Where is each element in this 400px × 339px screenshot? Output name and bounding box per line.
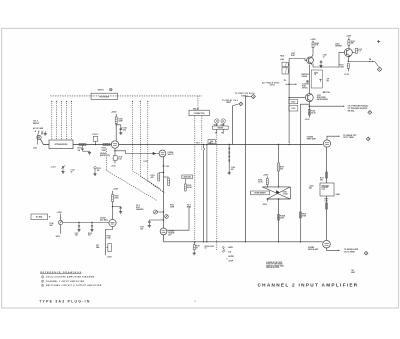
svg-text:TRIGGER: TRIGGER	[322, 185, 330, 187]
svg-text:1.8: 1.8	[358, 51, 360, 53]
emitter enclosure box	[311, 70, 322, 88]
svg-text:ATTENUATORS: ATTENUATORS	[55, 143, 69, 146]
diamond trigger	[368, 111, 372, 115]
svg-text:R149: R149	[280, 54, 284, 57]
neon box label	[213, 126, 229, 129]
svg-text:8-50: 8-50	[123, 130, 126, 132]
svg-text:2 100K: 2 100K	[283, 194, 289, 196]
wire cathode to second CF grid	[114, 150, 115, 151]
svg-text:2: 2	[366, 253, 367, 255]
svg-text:VERT AMP: VERT AMP	[307, 139, 317, 141]
gain adj box	[182, 175, 193, 179]
ganged switch dashed verticals into attenuator	[51, 103, 53, 140]
test point TP148	[323, 91, 325, 93]
svg-text:GANGED: GANGED	[136, 208, 144, 211]
svg-text:R156: R156	[311, 110, 315, 112]
diamond diode gate	[364, 251, 368, 255]
wire bottom rail	[164, 241, 323, 243]
capacitor C121	[163, 219, 164, 220]
wire to Q163 base	[289, 59, 307, 61]
svg-text:POSIT OF VERT MODE: POSIT OF VERT MODE	[266, 264, 282, 266]
svg-text:C119: C119	[166, 166, 170, 168]
trimmer INT DC BAL	[108, 244, 111, 252]
attenuators box	[49, 140, 73, 149]
resistor R157 on gate line	[278, 144, 279, 145]
svg-text:1: 1	[42, 277, 43, 279]
svg-text:SW101: SW101	[98, 90, 104, 92]
svg-text:.005: .005	[75, 235, 78, 237]
boxed labels R152 C152	[289, 100, 298, 104]
svg-text:-100V: -100V	[55, 236, 61, 238]
dashed verticals from delay connector	[194, 116, 196, 242]
svg-text:-12.2V: -12.2V	[305, 119, 311, 121]
gate output to rail	[278, 199, 280, 242]
svg-text:T172: T172	[322, 189, 326, 191]
svg-text:J101: J101	[33, 148, 37, 150]
svg-text:2: 2	[379, 69, 380, 71]
svg-text:R159: R159	[258, 180, 262, 182]
svg-text:+225V: +225V	[310, 39, 316, 41]
svg-text:12: 12	[323, 57, 325, 59]
input RC network R101 C101	[79, 144, 86, 146]
chop switch contacts	[223, 247, 225, 249]
svg-text:SWITCHING CIRCUIT & OUTPUT AMP: SWITCHING CIRCUIT & OUTPUT AMPLIFIER	[46, 284, 102, 287]
tube V123B phase inverter	[160, 228, 167, 235]
svg-text:6962: 6962	[351, 272, 355, 274]
svg-text:(CH 1): (CH 1)	[270, 85, 275, 87]
tube V101A input CF	[111, 141, 118, 148]
svg-text:Q153: Q153	[317, 95, 321, 97]
svg-text:R175: R175	[324, 199, 328, 201]
wire feed vertical top	[288, 59, 290, 98]
svg-text:R135: R135	[196, 246, 200, 248]
cathode chain V101B	[106, 227, 113, 256]
svg-text:2: 2	[368, 139, 369, 141]
svg-text:+0.5V: +0.5V	[111, 165, 117, 167]
svg-text:+225V: +225V	[111, 112, 117, 114]
svg-text:2.2M: 2.2M	[107, 238, 111, 240]
wire DC BAL wiper	[63, 222, 109, 224]
svg-text:NEONS: NEONS	[218, 128, 224, 130]
svg-text:+100V: +100V	[113, 189, 119, 191]
svg-text:R118: R118	[88, 233, 92, 235]
neon leads	[216, 123, 218, 126]
resistor R135 under rail	[193, 242, 195, 245]
emitter resistor R156	[308, 110, 310, 116]
svg-text:DC BAL: DC BAL	[36, 215, 44, 218]
diamond delay	[239, 102, 243, 106]
pot R127	[165, 215, 169, 219]
wire attenuator output	[73, 144, 111, 146]
resistor R124	[164, 176, 169, 178]
svg-text:+C113: +C113	[51, 166, 56, 168]
-100V below gate	[266, 199, 268, 202]
wire Q163 to Q173	[321, 52, 344, 67]
trigger pickoff box	[320, 183, 334, 196]
svg-text:CH 2 TRIGGER SIGNAL: CH 2 TRIGGER SIGNAL	[348, 104, 369, 107]
svg-text:86.6K: 86.6K	[187, 187, 192, 189]
svg-text:D113: D113	[144, 161, 148, 163]
boxed label DC BAL	[31, 214, 48, 220]
dashed diagonal linkage	[133, 171, 161, 189]
dashed linkage verticals right of switch	[132, 103, 134, 171]
svg-text:R161: R161	[302, 214, 306, 216]
svg-text:.001: .001	[140, 229, 143, 231]
wire output to diode gate	[327, 248, 340, 250]
grid resistor R102	[103, 144, 110, 146]
svg-text:INPUT: INPUT	[33, 123, 40, 125]
boxed label near rail	[208, 139, 215, 143]
dashed switch linkage to chop switch	[216, 135, 218, 251]
svg-text:3A3 CF: 3A3 CF	[167, 154, 174, 156]
emitter resistor R173	[347, 64, 349, 69]
svg-text:CKT 2 THRU: CKT 2 THRU	[344, 252, 356, 254]
wire Q163 column down to trigger stage	[309, 65, 311, 94]
wire long rail to output CF grid	[119, 144, 323, 146]
wire plate to grid line	[327, 136, 339, 140]
svg-text:C152: C152	[291, 108, 295, 110]
svg-text:470: 470	[231, 168, 234, 171]
pot VARIABLE	[154, 210, 158, 214]
svg-text:(INPUT CF): (INPUT CF)	[100, 155, 110, 157]
wire Q153 base to feed line	[289, 97, 305, 99]
svg-text:BAL: BAL	[96, 246, 99, 249]
tube V1094B single ended	[323, 240, 331, 248]
dashed linkage below attenuator	[106, 149, 108, 171]
inductor R149	[282, 62, 288, 67]
transistor Q153 trigger pickoff	[305, 94, 313, 102]
svg-text:VOLTS/DIV: VOLTS/DIV	[99, 96, 110, 98]
svg-text:-100V: -100V	[262, 204, 268, 206]
diode gate bowtie	[262, 186, 290, 188]
svg-text:AC DC GND: AC DC GND	[33, 127, 44, 130]
svg-text:+100V: +100V	[263, 174, 269, 176]
svg-text:DRIVER: DRIVER	[335, 46, 342, 48]
svg-text:(DC BAL): (DC BAL)	[100, 220, 108, 222]
tube V123A second CF	[159, 150, 166, 157]
svg-text:CHANNEL 1 INPUT AMPLIFIER: CHANNEL 1 INPUT AMPLIFIER	[46, 280, 85, 283]
svg-text:R171: R171	[320, 177, 324, 179]
cathode chain V1094A	[326, 147, 328, 183]
svg-text:SW SEL: SW SEL	[348, 111, 356, 113]
capacitor C117	[78, 223, 80, 226]
transistor Q163	[307, 57, 314, 64]
registration cross	[377, 41, 380, 43]
resistor R119 on cathode line	[163, 164, 165, 166]
inductor L174	[352, 51, 355, 53]
diamond vert sig	[251, 94, 255, 98]
svg-text:-100V: -100V	[107, 257, 113, 259]
svg-text:220K: 220K	[118, 120, 123, 122]
svg-text:+125V: +125V	[346, 36, 352, 38]
svg-text:2: 2	[42, 281, 43, 283]
svg-text:D158: D158	[283, 192, 287, 194]
svg-text:+100V: +100V	[57, 212, 63, 214]
svg-text:SINGLE AMP: SINGLE AMP	[308, 249, 319, 251]
svg-text:R152: R152	[291, 101, 295, 103]
svg-text:TP: TP	[215, 133, 217, 135]
svg-text:CHANNEL 2 INPUT AMPLIFIER: CHANNEL 2 INPUT AMPLIFIER	[258, 282, 359, 287]
svg-text:C117: C117	[75, 233, 79, 235]
emitter network cap C149	[313, 64, 321, 68]
svg-text:CH 2: CH 2	[33, 121, 39, 123]
svg-text:GATE DRIVER: GATE DRIVER	[317, 99, 329, 101]
svg-text:PICKOFF: PICKOFF	[322, 187, 329, 189]
neon B167	[215, 119, 219, 123]
wire delayed line	[231, 106, 233, 145]
resistor R125	[184, 184, 186, 191]
svg-text:CONNECTOR: CONNECTOR	[194, 113, 206, 115]
svg-text:R147: R147	[291, 54, 295, 57]
svg-text:8-50: 8-50	[118, 159, 121, 161]
svg-text:R173: R173	[340, 65, 344, 67]
diamond driver output	[375, 62, 379, 67]
svg-text:EMITTER: EMITTER	[302, 74, 310, 76]
resistor R123	[163, 172, 164, 173]
boxed label inverter switch	[251, 191, 270, 195]
wire input to attenuator	[41, 139, 50, 144]
svg-text:2: 2	[369, 112, 370, 114]
wires delay line pair	[203, 145, 204, 242]
trigger output line	[308, 102, 310, 118]
svg-text:OSCILLOSCOPE AMPLIFIER DIAGRAM: OSCILLOSCOPE AMPLIFIER DIAGRAM	[46, 276, 95, 279]
cathode trimmer C108	[114, 148, 116, 156]
wire emitter column to bottom rail	[300, 104, 309, 242]
svg-text:-12.2V: -12.2V	[344, 74, 350, 76]
ground at input switch	[44, 131, 46, 132]
svg-text:CKT 2 THRU: CKT 2 THRU	[343, 137, 354, 139]
svg-text:TP: TP	[221, 133, 223, 135]
svg-text:SHOWN IN THE CHOP: SHOWN IN THE CHOP	[266, 262, 282, 264]
wire vertical sync line	[244, 97, 246, 242]
neon B168	[221, 119, 225, 123]
plate supply +225V with R105	[115, 114, 117, 117]
transistor Q173	[344, 48, 352, 56]
wire driver output	[347, 56, 349, 61]
ganged switch bus dashed	[50, 95, 202, 97]
svg-text:47: 47	[71, 171, 73, 174]
connector P101	[93, 136, 98, 141]
wire V123B cathode to bottom rail	[163, 235, 165, 242]
svg-text:3: 3	[42, 285, 43, 287]
diamond grid ckt	[366, 137, 370, 141]
wire base feed to rail	[288, 98, 290, 142]
capacitor C118	[91, 223, 93, 226]
svg-text:12P: 12P	[327, 79, 330, 81]
svg-text:2: 2	[240, 104, 241, 106]
svg-text:L149: L149	[280, 58, 284, 61]
wire V123 cathode chain	[163, 157, 165, 228]
inductor L149	[282, 68, 288, 74]
capacitor C100	[41, 132, 43, 134]
capacitor stack C166	[228, 145, 230, 163]
capacitor C105 decoupling	[116, 125, 121, 128]
svg-text:R165B: R165B	[280, 216, 286, 218]
connector J101	[37, 135, 41, 139]
resistor R174	[348, 40, 350, 45]
below pickoff resistor	[326, 196, 328, 240]
svg-text:2ND DIODE: 2ND DIODE	[316, 97, 327, 99]
svg-text:P101 2: P101 2	[93, 134, 99, 136]
svg-text:NORM INVERT: NORM INVERT	[255, 192, 266, 194]
wire V123B plate	[167, 206, 189, 230]
svg-text:100K: 100K	[102, 150, 107, 152]
svg-text:52: 52	[205, 248, 207, 250]
svg-text:TYPE 3A3 PLUG-IN: TYPE 3A3 PLUG-IN	[39, 299, 90, 303]
svg-text:2: 2	[253, 96, 254, 98]
